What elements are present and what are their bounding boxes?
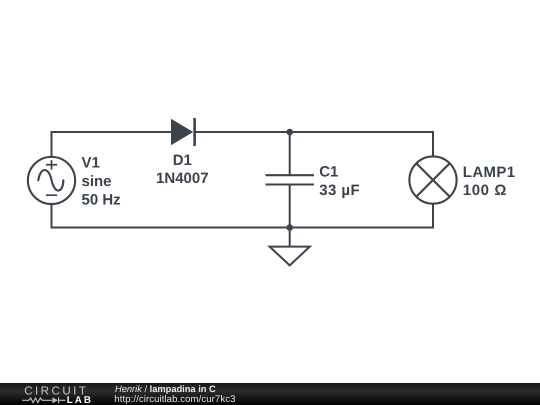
- voltage source V1: [28, 157, 75, 204]
- svg-text:100 Ω: 100 Ω: [463, 182, 507, 199]
- ground: [270, 247, 310, 266]
- footer logo squiggle wire: [22, 397, 65, 403]
- svg-text:sine: sine: [82, 173, 112, 190]
- wire top from V1 to D1 anode: [52, 131, 173, 133]
- lamp LAMP1: [409, 156, 456, 203]
- footer logo diode glyph: [52, 397, 58, 403]
- svg-text:D1: D1: [173, 152, 192, 169]
- wire capacitor top lead: [289, 132, 291, 175]
- wire capacitor bottom lead: [289, 185, 291, 228]
- footer bar: [0, 383, 540, 405]
- wire top from D1 cathode to node N1: [194, 131, 290, 133]
- wire left vertical upper: [51, 131, 53, 158]
- capacitor C1: [266, 175, 315, 184]
- wire left vertical lower: [50, 203, 52, 228]
- wire right vertical lower: [432, 203, 434, 229]
- svg-text:C1: C1: [319, 164, 338, 181]
- svg-text:LAMP1: LAMP1: [463, 164, 516, 181]
- wire bottom from node N2 to LAMP1: [290, 227, 433, 229]
- svg-text:33 µF: 33 µF: [319, 182, 360, 199]
- svg-text:50 Hz: 50 Hz: [81, 192, 120, 209]
- diode D1: [171, 118, 195, 146]
- wire ground stub: [289, 228, 291, 248]
- svg-text:1N4007: 1N4007: [156, 170, 209, 187]
- wire right vertical upper: [432, 131, 434, 157]
- node N1 junction dot: [286, 129, 293, 136]
- wire top from node N1 to LAMP1: [290, 131, 433, 133]
- svg-text:V1: V1: [82, 155, 100, 172]
- wire bottom from V1 to node N2: [51, 226, 289, 228]
- node N2 junction dot: [286, 224, 293, 231]
